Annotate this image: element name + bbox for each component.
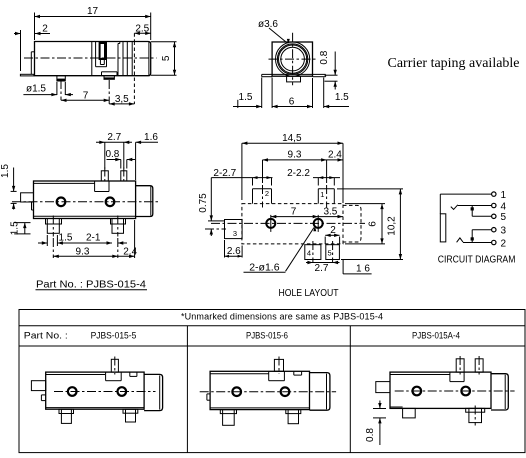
drawing PJBS-015-5: rivet left [68,387,77,396]
hole layout: pad 1 upper-right [318,185,334,208]
view B: dimension 6 [272,78,312,109]
drawing PJBS-015-6: recess under pin [269,371,285,380]
view A: bottom pin 1 [57,76,65,82]
view A: bottom pin 2 with boss [102,72,118,80]
hole layout: pad 5 lower-right [326,241,340,263]
svg-text:1.5: 1.5 [239,92,253,103]
view B: label dia 3.6 with leader [258,19,290,44]
drawing PJBS-015-6: top notch [294,371,302,375]
hole layout: main outline dashed [242,204,343,244]
svg-text:1 6: 1 6 [356,263,370,274]
svg-text:1.5: 1.5 [335,92,349,103]
svg-text:1.5: 1.5 [59,233,73,244]
svg-text:2.6: 2.6 [227,246,241,257]
hole layout: dimension 14,5 [242,133,343,203]
table: outer border [19,310,525,453]
svg-text:1.5: 1.5 [10,221,21,235]
drawing PJBS-015A-4: left terminal pin [376,382,390,393]
svg-text:*Unmarked dimensions are same: *Unmarked dimensions are same as PJBS-01… [181,311,383,321]
hole layout: pad 2 upper-left [253,185,272,208]
drawing PJBS-015-6: top pin [274,357,283,374]
svg-text:1.5: 1.5 [0,164,11,178]
svg-text:6: 6 [289,96,295,107]
drawing PJBS-015-5: top pin [111,357,118,375]
svg-text:2.7: 2.7 [107,132,121,143]
view C: threaded bushing [136,186,153,217]
svg-text:3,5: 3,5 [115,94,129,105]
view C: bottom leg 1 [46,216,62,237]
drawing PJBS-015-5: rivet right [118,387,127,396]
drawing PJBS-015-5: leg 2 [123,409,138,422]
view C: dimension 2.7 [96,132,132,169]
drawing PJBS-015-6: leg 2 [286,410,301,424]
table: part name PJBS-015A-4 [412,330,460,340]
drawing PJBS-015A-4: body [390,372,491,408]
svg-text:2: 2 [265,189,269,198]
drawing PJBS-015A-4: dimension 0.8 [365,401,386,446]
drawing PJBS-015-6: body [210,371,309,409]
svg-text:9.3: 9.3 [76,246,90,257]
drawing PJBS-015-6: bushing [310,373,330,411]
svg-text:1.6: 1.6 [144,132,158,143]
hole layout: title [279,288,339,299]
svg-text:CIRCUIT DIAGRAM: CIRCUIT DIAGRAM [438,254,516,265]
drawing PJBS-015A-4: top pin 1 [456,356,464,375]
drawing PJBS-015A-4: rivet left [413,387,422,396]
view C: dimension 9.3 [53,238,118,258]
svg-text:7: 7 [291,206,297,217]
hole layout: dimension 2 [325,225,339,244]
view C: dimension 1.6 [136,132,159,180]
drawing PJBS-015A-4: bottom tab [403,408,416,418]
view C: body outline [32,181,136,219]
drawing PJBS-015-5: left terminal pin [31,381,45,391]
svg-text:PJBS-015-6: PJBS-015-6 [246,330,288,340]
svg-text:3: 3 [233,229,237,238]
view A: dimension 3,5 [109,94,134,106]
svg-text:6: 6 [367,221,378,227]
drawing PJBS-015A-4: centerline [395,390,515,392]
svg-text:ø1.5: ø1.5 [26,84,46,95]
svg-text:0.75: 0.75 [198,193,209,213]
view C: bottom leg 2 [111,216,126,237]
circuit diagram: terminal 2 [492,238,507,249]
table: column divider 2 [349,326,351,453]
svg-text:2.5: 2.5 [135,23,149,34]
svg-text:2-2.2: 2-2.2 [287,168,310,179]
view A: body outline (side view, 17mm) [35,42,151,76]
svg-text:17: 17 [87,6,99,17]
part number title [36,278,148,290]
svg-text:5: 5 [161,55,172,61]
drawing PJBS-015A-4: rivet right [461,387,470,396]
view C: top pin 1 [101,168,108,185]
circuit diagram: terminal 3 [492,226,507,237]
circuit diagram: title [438,254,516,265]
hole layout: dimension 2.7 bottom [306,261,340,274]
svg-text:PJBS-015-5: PJBS-015-5 [91,330,137,340]
svg-text:2: 2 [330,225,336,236]
view A: switch slot [100,43,105,65]
hole layout: dimension 7 [271,206,318,218]
circuit diagram: terminal 5 [492,212,507,223]
svg-text:PJBS-015A-4: PJBS-015A-4 [412,330,460,340]
view A: centerline [24,57,157,59]
table: part row divider [19,345,525,347]
drawing PJBS-015-6: rivet left [232,387,241,396]
view B: mounting flange wings [262,74,326,76]
circuit diagram: wire to terminal 3 with junction [471,230,492,243]
svg-text:7: 7 [83,90,89,101]
view C: dimension 2.4 [118,220,138,258]
svg-text:4: 4 [307,249,311,258]
table: part name PJBS-015-5 [91,330,137,340]
hole layout: label 2-dia1.6 with leader [244,226,317,273]
view B: crosshair centerlines [269,33,318,86]
hole layout: dimension 9.3 [263,150,327,183]
svg-text:14,5: 14,5 [282,133,302,144]
view A: dimension dia 1.5 [23,82,73,96]
svg-text:2.4: 2.4 [328,150,342,161]
drawing PJBS-015-6: centerline [200,391,336,393]
drawing PJBS-015A-4: bushing [491,374,508,410]
svg-text:2: 2 [501,238,507,249]
view C: contact rivet right [106,198,115,207]
drawing PJBS-015-5: top notch [130,372,137,376]
circuit diagram: switch contact and wire to terminal 2 [457,238,492,243]
table: header note text [181,311,383,321]
circuit diagram: sleeve contact bar [440,214,446,242]
circuit diagram: terminal 4 [492,201,507,212]
view C: top pin 2 [121,168,127,185]
view C: recess under pin 1 [95,181,109,192]
view C: centerline [12,201,158,203]
svg-text:2.7: 2.7 [315,263,329,274]
svg-text:2: 2 [42,24,48,35]
drawing PJBS-015-5: recess under pin [106,372,122,381]
hole layout: dimension 6 [345,204,385,244]
hole layout: bushing outline dashed [343,205,361,242]
table: column divider 1 [186,326,188,453]
svg-text:0.8: 0.8 [105,149,119,160]
drawing PJBS-015-5: leg 1 [59,409,74,423]
hole layout: hole 1 [266,215,275,232]
view C: dimension 1.5 pin thickness [0,164,17,210]
svg-text:ø3.6: ø3.6 [258,19,278,30]
drawing PJBS-015A-4: recess under pin 1 [450,372,464,382]
circuit diagram: wire to terminal 5 with junction [471,206,492,217]
view A: dimension 17 [35,6,151,40]
view B: jack barrel circles [276,42,310,76]
svg-text:0.8: 0.8 [365,428,376,442]
svg-text:Carrier taping available: Carrier taping available [388,56,520,71]
hole layout: label 2-2.7 [211,168,272,186]
drawing PJBS-015-5: left bottom step [41,395,45,401]
hole layout: pad 3 left [205,220,242,239]
view A: left terminal pin [20,52,34,76]
view C: dimension 0.8 [105,149,135,169]
view C: dimension 1.5 leg offset [10,221,31,235]
view B: center pin [287,76,301,82]
note: carrier taping [388,56,520,71]
drawing PJBS-015-6: leg 1 [220,410,236,426]
circuit diagram: switch contact and wire to terminal 4 [451,205,492,210]
hole layout: pad 4 lower-left [305,241,321,263]
view A: inner vertical section lines [92,42,149,76]
svg-text:10,2: 10,2 [387,216,398,236]
svg-text:3: 3 [501,226,507,237]
view C: dimension 1.5 leg width [38,233,112,246]
view B: dimension 1.5 left [233,78,262,109]
drawing PJBS-015A-4: top pin 2 [475,356,483,375]
view A: dimension 5 [151,42,177,76]
svg-text:2.4: 2.4 [123,246,137,257]
svg-text:4: 4 [501,201,507,212]
view A: dimension 7 [61,80,109,104]
svg-text:Part No. : PJBS-015-4: Part No. : PJBS-015-4 [36,278,146,290]
view C: left terminal pin [21,193,34,202]
drawing PJBS-015-5: bushing [144,374,163,410]
hole layout: dimension 0.75 [198,178,224,236]
svg-text:5: 5 [328,249,332,258]
view B: dimension 1.5 right [324,78,349,109]
view A: dimension 2.5 [134,23,150,104]
drawing PJBS-015-6: left stub [207,394,210,400]
svg-text:HOLE LAYOUT: HOLE LAYOUT [279,288,339,299]
svg-text:1: 1 [501,190,507,201]
view B: square body front face [272,42,312,76]
table: part no label [24,330,68,340]
svg-text:0.8: 0.8 [319,50,330,64]
view C: dimension 2-1 [86,233,127,245]
table: part name PJBS-015-6 [246,330,288,340]
view C: contact rivet left [57,198,66,207]
table: header row divider [19,325,525,327]
hole layout: dimension 10,2 [337,189,403,260]
hole layout: dimension 1 6 bottom [343,260,372,275]
hole layout: dimension 2.4 [327,150,343,162]
hole layout: label 2-2.2 [287,168,340,186]
hole layout: hole 2 [314,215,323,232]
hole layout: dimension 3.5 [318,206,343,218]
circuit diagram: terminal 1 [492,190,507,201]
svg-text:9.3: 9.3 [288,150,302,161]
hole layout: centerline [211,222,365,224]
drawing PJBS-015-5: body [46,372,144,409]
svg-text:Part No. :: Part No. : [24,330,68,340]
drawing PJBS-015-6: rivet right [281,387,290,396]
hole layout: dimension 2.6 [225,240,243,258]
view B: dimension 0.8 [319,50,338,89]
svg-text:2-1: 2-1 [86,233,101,244]
drawing PJBS-015A-4: bottom leg [466,406,485,426]
view A: dimension 2 [14,24,50,72]
circuit diagram: wire to terminal 1 [440,194,491,214]
drawing PJBS-015-5: centerline [54,391,156,393]
svg-text:1: 1 [320,190,324,199]
svg-text:5: 5 [501,212,507,223]
svg-text:3.5: 3.5 [323,206,337,217]
